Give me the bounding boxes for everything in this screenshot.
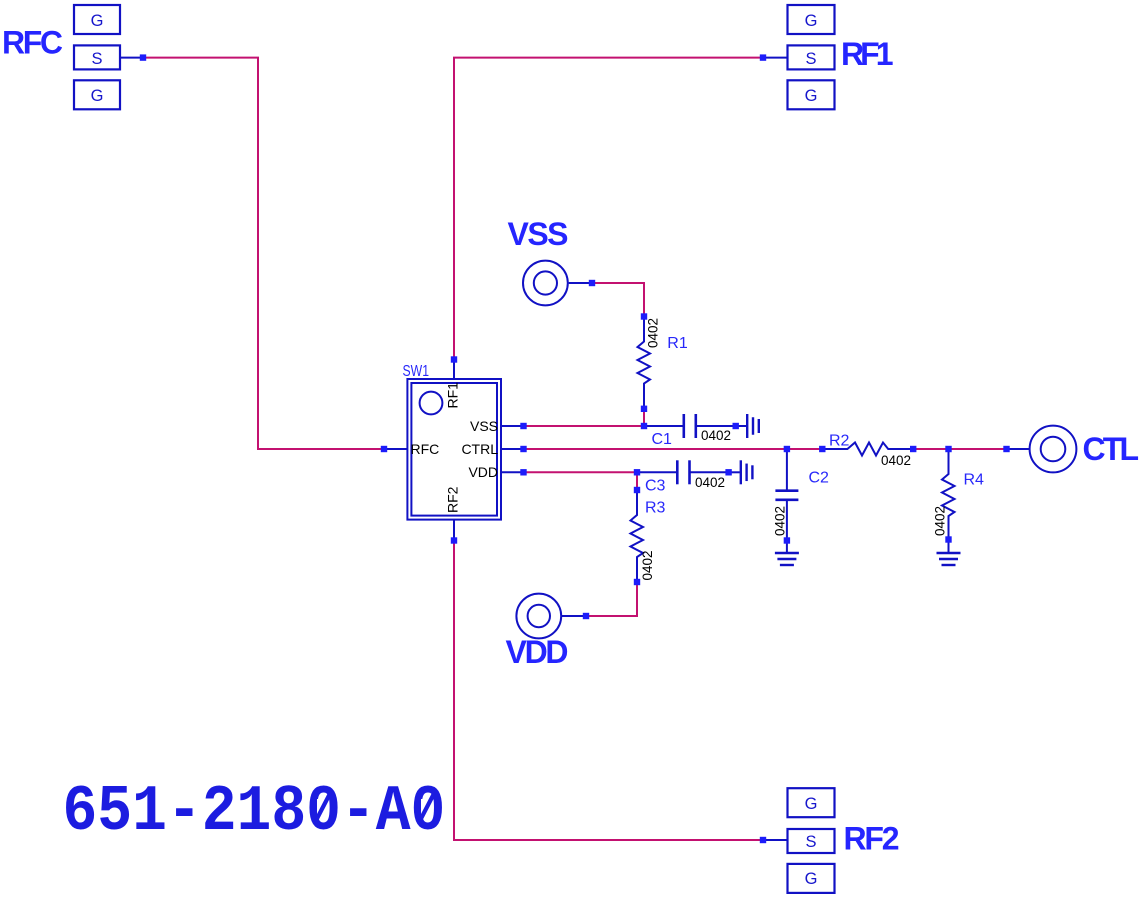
svg-text:RFC: RFC [2, 25, 63, 61]
svg-text:C3: C3 [645, 478, 666, 495]
svg-text:0402: 0402 [695, 475, 725, 490]
svg-text:VSS: VSS [508, 216, 569, 252]
svg-text:0402: 0402 [881, 453, 911, 468]
svg-text:R3: R3 [645, 499, 666, 516]
svg-text:R2: R2 [829, 432, 850, 449]
svg-text:CTRL: CTRL [461, 441, 498, 457]
svg-text:RFC: RFC [411, 441, 440, 457]
svg-text:RF2: RF2 [844, 821, 900, 857]
svg-text:VSS: VSS [470, 418, 498, 434]
svg-text:G: G [805, 795, 818, 813]
svg-text:VDD: VDD [468, 464, 498, 480]
svg-text:R4: R4 [964, 471, 985, 488]
svg-text:RF1: RF1 [841, 36, 894, 72]
svg-text:RF2: RF2 [445, 486, 461, 513]
svg-text:G: G [805, 87, 818, 105]
svg-text:0402: 0402 [933, 506, 948, 536]
svg-text:VDD: VDD [506, 634, 569, 670]
svg-text:G: G [805, 870, 818, 888]
svg-text:651-2180-A0: 651-2180-A0 [63, 776, 446, 849]
svg-text:0402: 0402 [646, 318, 661, 348]
svg-text:G: G [91, 12, 104, 30]
svg-text:C1: C1 [652, 431, 673, 448]
svg-text:CTL: CTL [1083, 431, 1140, 467]
svg-text:S: S [805, 50, 816, 68]
svg-text:C2: C2 [809, 469, 830, 486]
svg-text:G: G [91, 87, 104, 105]
svg-text:SW1: SW1 [403, 363, 430, 380]
svg-text:S: S [805, 833, 816, 851]
svg-text:R1: R1 [667, 335, 688, 352]
svg-text:0402: 0402 [640, 550, 655, 580]
svg-text:G: G [805, 12, 818, 30]
svg-text:0402: 0402 [773, 506, 788, 536]
svg-text:0402: 0402 [701, 428, 731, 443]
svg-text:S: S [91, 50, 102, 68]
svg-text:RF1: RF1 [445, 382, 461, 409]
